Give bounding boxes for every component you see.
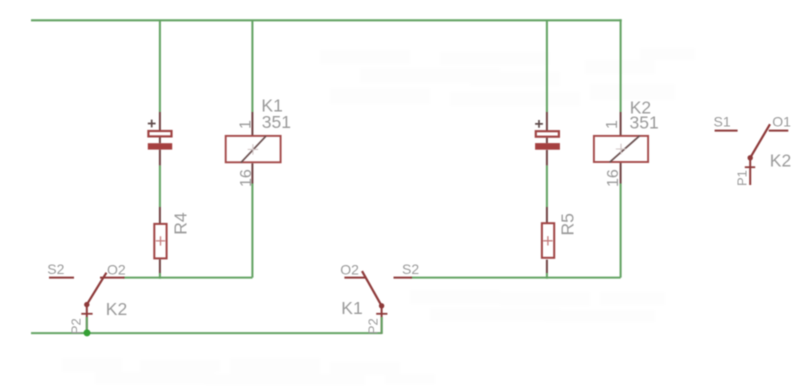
- wire overlay SW1 P pin: [86, 317, 88, 333]
- svg-text:S2: S2: [402, 261, 419, 277]
- switch SW2 fixed contact bar: [376, 313, 387, 315]
- capacitor C1 pin bottom: [159, 150, 161, 166]
- svg-text:16: 16: [238, 169, 255, 187]
- switch SW2 lever: [362, 271, 382, 306]
- svg-text:R5: R5: [558, 213, 578, 235]
- relay K1 origin cross: [248, 144, 258, 154]
- svg-text:S1: S1: [714, 114, 731, 130]
- capacitor C2 pin mid: [546, 138, 548, 143]
- svg-text:K2: K2: [106, 299, 127, 319]
- svg-text:351: 351: [262, 112, 291, 132]
- svg-text:K2: K2: [770, 150, 791, 170]
- svg-text:O2: O2: [107, 261, 126, 277]
- switch SW3 pivot dot: [748, 155, 753, 160]
- svg-text:P1: P1: [734, 170, 749, 186]
- svg-text:R4: R4: [171, 212, 191, 235]
- resistor R4 body: [154, 224, 166, 259]
- capacitor C1 plus mark: [148, 120, 156, 128]
- switch SW2 pivot dot: [379, 303, 384, 308]
- wire vertical to C2 branch: [546, 20, 548, 112]
- svg-text:O1: O1: [772, 113, 791, 129]
- junction dot bottom net: [84, 329, 91, 336]
- resistor R4 pin top: [159, 207, 161, 223]
- switch SW2 O2 pin: [344, 277, 366, 279]
- svg-text:351: 351: [630, 113, 659, 133]
- svg-text:1: 1: [604, 120, 621, 129]
- relay K1 pin 1 line: [251, 112, 253, 135]
- switch SW2 P2 pin line: [381, 306, 383, 334]
- relay K2 coil box: [594, 136, 648, 162]
- capacitor C2 pin top: [546, 112, 548, 131]
- wire C2 to R5: [546, 165, 548, 207]
- wire R5 to mid net: [546, 273, 548, 279]
- switch SW3 fixed contact bar: [745, 166, 755, 168]
- capacitor C2 top plate: [536, 131, 559, 137]
- capacitor C1 pin top: [159, 112, 161, 131]
- switch SW1 fixed contact bar: [81, 313, 92, 315]
- wire vertical to C1 branch: [159, 20, 161, 112]
- resistor R4 pin bottom: [159, 259, 161, 273]
- relay K2 coil diagonal: [610, 136, 640, 163]
- switch SW3 lever: [750, 124, 770, 158]
- wire mid net right: [410, 277, 621, 279]
- capacitor C1 top plate: [148, 131, 171, 136]
- switch SW3 S1 pin stub: [715, 130, 738, 132]
- resistor R5 pin bottom: [546, 260, 548, 273]
- switch SW3 P1 pin line: [749, 158, 751, 185]
- resistor R5 pin top: [546, 207, 548, 223]
- relay K2 pin 1 line: [620, 112, 622, 135]
- switch SW3 O1 pin: [769, 130, 789, 132]
- capacitor C1 bottom plate: [148, 143, 172, 149]
- svg-text:16: 16: [605, 169, 622, 187]
- svg-text:S2: S2: [47, 261, 64, 277]
- switch SW2 S2 pin stub: [394, 277, 413, 279]
- svg-text:P2: P2: [366, 318, 381, 334]
- wire R4 to mid net: [159, 273, 161, 279]
- capacitor C1 pin mid: [159, 137, 161, 143]
- wire vertical to K2 coil: [620, 19, 622, 112]
- wire K2 pin16 down: [620, 184, 622, 278]
- resistor R5 origin cross: [543, 236, 552, 245]
- switch SW1 pivot dot: [84, 302, 89, 307]
- svg-text:O2: O2: [340, 261, 359, 277]
- switch SW1 S2 pin stub: [49, 277, 74, 279]
- relay K1 coil box: [226, 136, 281, 162]
- svg-text:1: 1: [238, 120, 255, 129]
- resistor R4 origin cross: [156, 236, 165, 245]
- switch SW1 P2 pin line: [86, 305, 88, 333]
- wire overlay SW2 P pin: [381, 317, 383, 334]
- relay K2 pin 16 line: [620, 163, 622, 184]
- wire top horizontal net: [31, 19, 622, 21]
- switch SW1 lever: [87, 273, 107, 305]
- wire bottom net: [31, 332, 382, 334]
- switch SW1 O2 pin: [100, 277, 125, 279]
- resistor R5 body: [542, 223, 554, 258]
- wire vertical to K1 coil: [251, 20, 253, 112]
- capacitor C2 bottom plate: [535, 143, 560, 150]
- capacitor C2 plus mark: [535, 120, 543, 128]
- relay K1 pin 16 line: [251, 163, 253, 183]
- relay K2 origin cross: [616, 144, 626, 154]
- svg-text:K1: K1: [341, 298, 362, 318]
- capacitor C2 pin bottom: [546, 150, 548, 166]
- wire C1 to R4: [159, 165, 161, 207]
- wire mid net left: [123, 277, 252, 279]
- relay K1 coil diagonal: [241, 136, 266, 163]
- svg-text:P2: P2: [69, 318, 84, 334]
- wire K1 pin16 down: [251, 184, 253, 278]
